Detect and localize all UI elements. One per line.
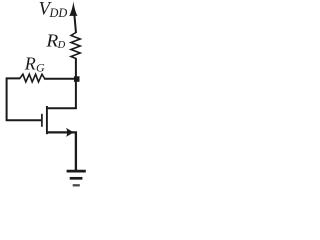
svg-text:R: R [45, 31, 58, 50]
svg-text:DD: DD [49, 6, 68, 20]
svg-text:R: R [24, 53, 36, 73]
svg-text:D: D [57, 40, 66, 51]
svg-text:G: G [36, 61, 45, 75]
